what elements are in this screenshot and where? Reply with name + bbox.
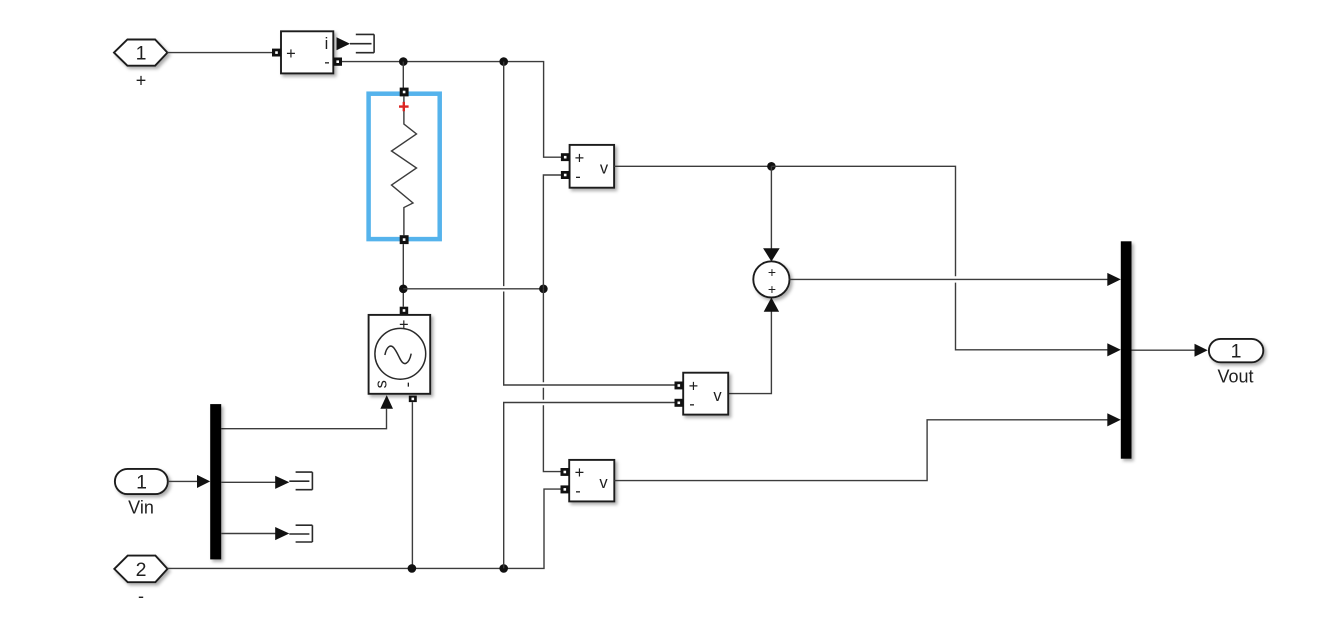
arrowhead into sum bottom (764, 298, 779, 312)
resistor R1 zigzag (392, 96, 417, 235)
voltage sensor V1 (570, 145, 615, 188)
svg-text:+: + (575, 464, 585, 482)
svg-text:+: + (768, 264, 776, 280)
demux out3 wire (221, 533, 276, 535)
wire sum out to mux input 1 (790, 278, 1109, 280)
current sensor - output port (333, 58, 342, 66)
svg-text:-: - (324, 54, 330, 72)
port In1 hexagon (114, 40, 167, 66)
wire mux to Vout (1132, 349, 1196, 351)
sensor V1 + port (561, 153, 570, 161)
svg-text:+: + (136, 71, 147, 91)
svg-text:Vout: Vout (1217, 367, 1253, 387)
sum block S1 (753, 261, 789, 297)
voltage source minus port (409, 396, 417, 403)
resistor R1 polarity + (red) (399, 102, 409, 111)
wire current sensor minus to sensor V1 plus (342, 62, 561, 158)
arrowhead mux input 1 (1107, 273, 1121, 286)
wire sensor V2 out up to sum (728, 311, 771, 394)
terminator T1 (350, 34, 374, 52)
port In2 hexagon (114, 556, 167, 583)
junction node B (499, 57, 508, 66)
junction node D (539, 285, 548, 294)
wire node G to mux input 2 (771, 166, 1108, 349)
junction node F (499, 564, 508, 573)
svg-text:i: i (325, 35, 329, 53)
svg-text:1: 1 (136, 43, 147, 65)
svg-text:-: - (399, 382, 417, 388)
sensor V1 - port (561, 171, 570, 179)
arrowhead into Vout (1195, 344, 1208, 357)
svg-text:v: v (600, 160, 609, 178)
arrowhead mux input 3 (1107, 413, 1121, 426)
svg-text:+: + (286, 45, 296, 63)
wire source minus to bottom rail (411, 402, 413, 568)
resistor R1 bottom port (400, 235, 409, 244)
sensor V3 - port (561, 485, 570, 493)
sensor V2 + port (675, 382, 684, 390)
voltage source top port (400, 307, 409, 315)
svg-text:+: + (689, 377, 699, 395)
wire node D down to sensor V3 plus (with crossover gaps) (543, 289, 561, 472)
wire node G down to sum (770, 166, 772, 249)
voltage sensor V2 (683, 373, 728, 415)
demux D1 (210, 404, 221, 559)
svg-text:+: + (575, 150, 585, 168)
wire In1 to current sensor (167, 52, 272, 54)
svg-text:-: - (575, 482, 581, 500)
arrow to terminator T2 (275, 476, 289, 489)
resistor R1 top port (400, 88, 409, 97)
junction node E (408, 564, 417, 573)
svg-text:-: - (138, 586, 144, 606)
wire V3 out to mux input 3 (614, 420, 1108, 481)
wire node F up to sensor V2 minus (504, 403, 675, 569)
wire node A to resistor top (402, 62, 404, 88)
voltage sensor V3 (569, 460, 614, 502)
svg-text:1: 1 (136, 471, 147, 493)
svg-text:Vin: Vin (128, 498, 154, 518)
svg-text:-: - (575, 168, 581, 186)
arrow to terminator T3 (275, 527, 289, 540)
signal arrow from i output (337, 37, 351, 50)
wire resistor bottom to voltage source top (402, 244, 404, 307)
outport Vout oval (1209, 339, 1263, 362)
wire V1 out to node G (614, 165, 771, 167)
mux M1 (1121, 241, 1132, 458)
inport Vin oval (115, 469, 168, 494)
bottom rail wire In2 to sensor V3 minus (168, 489, 562, 568)
svg-text:v: v (713, 387, 722, 405)
svg-text:v: v (599, 474, 608, 492)
wire node D up to sensor V1 minus (543, 175, 561, 289)
current sensor U1 (281, 31, 333, 73)
sensor V2 - port (675, 399, 684, 407)
wire Vin to demux (168, 480, 198, 482)
terminator T3 (289, 525, 312, 542)
junction node A (399, 57, 408, 66)
svg-text:+: + (399, 316, 409, 334)
svg-text:s: s (373, 380, 391, 388)
arrowhead mux input 2 (1107, 343, 1121, 356)
wire node B down to sensor V2 plus (with crossover gap) (504, 62, 675, 385)
junction node G (767, 162, 776, 171)
voltage source s input arrow (380, 395, 393, 409)
demux out2 wire (221, 481, 276, 483)
junction node C (399, 285, 408, 294)
wire node C to node D (403, 288, 543, 290)
resistor R1 selection highlight (369, 94, 440, 239)
voltage source VS1 (369, 315, 431, 394)
terminator T2 (289, 472, 312, 490)
svg-text:-: - (689, 396, 695, 414)
svg-text:1: 1 (1231, 341, 1242, 363)
svg-text:+: + (768, 281, 776, 297)
svg-text:2: 2 (136, 559, 147, 581)
Vin arrowhead into demux (197, 475, 210, 488)
arrowhead into sum top (763, 248, 780, 261)
wire demux out1 to source s arrow (221, 409, 386, 429)
current sensor + input port (272, 49, 281, 57)
sensor V3 + port (561, 468, 570, 476)
